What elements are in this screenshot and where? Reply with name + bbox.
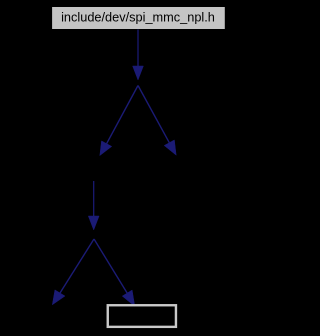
edge: node A -> node B (diagonal left arrow): [100, 86, 138, 156]
node F: empty bottom box: [108, 305, 176, 327]
node: include/dev/spi_mmc_npl.h (root box): [52, 7, 226, 30]
edge: root -> node A (vertical arrow): [133, 30, 144, 81]
edge: node A -> node C (diagonal right arrow): [138, 86, 176, 156]
edge: node D -> node F (diagonal right arrow into bottom box): [94, 239, 135, 306]
edge: node B -> node D (vertical arrow): [88, 181, 99, 230]
svg-text:include/dev/spi_mmc_npl.h: include/dev/spi_mmc_npl.h: [61, 9, 215, 24]
edge: node D -> node E (diagonal left arrow): [52, 239, 94, 305]
